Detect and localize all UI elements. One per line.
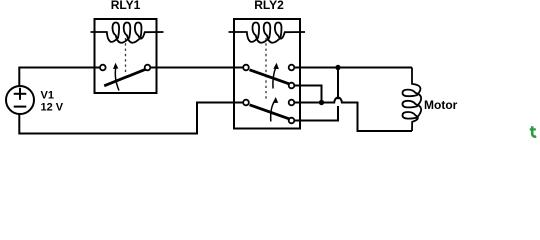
RLY2 coil (229, 23, 306, 43)
svg-text:Motor: Motor (424, 98, 458, 112)
RLY2 switch2 common contact (243, 100, 249, 106)
RLY1 left contact (100, 65, 106, 71)
svg-text:RLY2: RLY2 (254, 0, 284, 12)
wire W6: RLY2 S1 lower contact over and down to node B (294, 86, 321, 102)
RLY1 switch arm (104, 69, 146, 86)
RLY2 dashed actuator link (265, 38, 267, 99)
RLY1 coil (91, 23, 164, 43)
RLY2 switch1 lower contact (289, 83, 295, 89)
wire W5a: node A down to hop gap (337, 68, 339, 100)
V1 plus mark (14, 93, 27, 95)
wire W3: V1 minus along bottom up to RLY2 S2 common (19, 103, 243, 134)
RLY2 switch1 arm (250, 70, 290, 84)
motor M1 coil (403, 68, 422, 132)
wire W7: RLY2 S2 upper contact to motor bottom with hop over W5 (294, 97, 412, 131)
wire W4: RLY2 S1 upper contact right to motor top corner (294, 67, 412, 69)
RLY2 switch2 upper contact (289, 100, 295, 106)
voltage source V1 (6, 86, 34, 114)
RLY1 right contact (145, 65, 151, 71)
RLY2 switch1 arrow (273, 67, 276, 89)
relay RLY2 box (234, 19, 300, 129)
wire W2: RLY1 switched contact to RLY2 S1 common (150, 67, 243, 69)
RLY1 actuation arrow (115, 67, 119, 91)
svg-text:V1: V1 (41, 90, 54, 102)
RLY2 switch2 arrow (271, 102, 275, 122)
watermark letter t (530, 126, 537, 136)
wire W1: V1 plus up and over to RLY1 common contact (19, 68, 100, 87)
RLY1 dashed actuator link (125, 38, 127, 72)
RLY2 switch2 arm (250, 105, 290, 119)
RLY2 switch2 lower contact (289, 118, 295, 124)
svg-text:RLY1: RLY1 (111, 0, 141, 12)
wire W5b: below hop down and left to RLY2 S2 lower contact (294, 106, 338, 121)
V1 circle (6, 86, 34, 114)
V1 minus mark (14, 106, 27, 108)
junction node A (335, 65, 340, 70)
RLY2 switch1 common contact (243, 65, 249, 71)
svg-text:12 V: 12 V (41, 102, 64, 114)
junction node B (319, 100, 324, 105)
relay RLY1 box (95, 19, 157, 93)
RLY2 switch1 upper contact (289, 65, 295, 71)
